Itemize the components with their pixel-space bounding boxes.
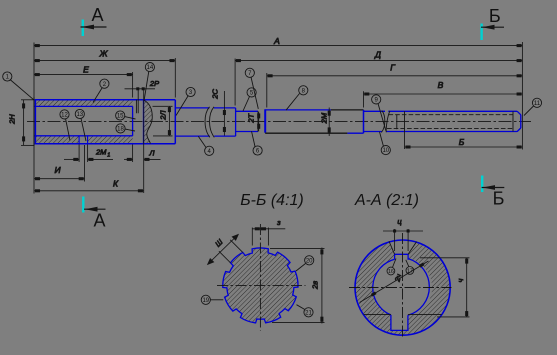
tube S1 hatch bottom wall bbox=[36, 136, 133, 143]
ext line x=143.7 long down bbox=[143, 89, 145, 193]
balloon numbers main view bbox=[6, 65, 541, 155]
gear hatch bbox=[223, 248, 298, 323]
balloon 19 bbox=[201, 256, 314, 317]
dimension ц bbox=[383, 217, 423, 251]
cut marker Б bottom bbox=[481, 176, 483, 193]
svg-text:10: 10 bbox=[382, 148, 389, 154]
svg-text:2Т: 2Т bbox=[246, 112, 255, 123]
svg-text:ц: ц bbox=[397, 217, 402, 226]
dimension А bbox=[34, 45, 522, 47]
keyway V diagonals bbox=[389, 241, 417, 254]
thread minor dashed bbox=[387, 115, 513, 129]
dimension К bbox=[33, 182, 35, 194]
balloon 20 bbox=[296, 264, 306, 272]
bottom keyway slot bbox=[391, 315, 408, 331]
svg-text:18: 18 bbox=[117, 127, 124, 133]
svg-text:А: А bbox=[273, 36, 280, 46]
svg-text:1: 1 bbox=[107, 153, 110, 159]
balloon 2 bbox=[93, 88, 102, 103]
svg-text:Ж: Ж bbox=[99, 49, 109, 59]
dimension 2Т bbox=[258, 112, 260, 132]
dimension Е bbox=[34, 74, 133, 76]
balloon 12 bbox=[66, 119, 71, 141]
ring outer circle bbox=[355, 240, 450, 335]
tube S1 bore lines bbox=[34, 106, 133, 135]
balloon 11 bbox=[524, 106, 534, 116]
svg-text:2С: 2С bbox=[210, 89, 219, 100]
cut marker Б top bbox=[480, 24, 482, 41]
cut marker A bottom bbox=[82, 197, 84, 213]
chamfer line right bbox=[512, 111, 514, 131]
svg-text:19: 19 bbox=[202, 298, 209, 304]
svg-text:17: 17 bbox=[407, 268, 413, 274]
svg-text:2М: 2М bbox=[320, 112, 329, 124]
dimension ч bbox=[420, 258, 470, 317]
balloon 18 bbox=[125, 129, 135, 131]
svg-text:2в: 2в bbox=[311, 281, 320, 290]
ext line x=402.5 down bbox=[404, 132, 406, 150]
dimension Г bbox=[267, 75, 523, 77]
balloon 4 bbox=[198, 136, 206, 147]
main centerline bbox=[27, 121, 531, 123]
thread start line bbox=[404, 111, 406, 131]
section S3 outline bbox=[175, 108, 235, 136]
tube S1 outer contour bbox=[35, 100, 176, 144]
svg-text:13: 13 bbox=[76, 112, 83, 118]
svg-text:ч: ч bbox=[456, 279, 465, 283]
groove right wall bbox=[143, 100, 145, 144]
svg-text:Б: Б bbox=[459, 137, 465, 147]
dimension 2М s4 bbox=[328, 108, 330, 137]
cut marker A top bbox=[82, 20, 84, 37]
ext line x=266.8 up bbox=[266, 73, 268, 108]
dimension Д bbox=[235, 60, 522, 62]
dimension 2Р bbox=[125, 88, 156, 90]
wavy break line S1 bbox=[144, 100, 153, 144]
balloon 6 bbox=[252, 131, 256, 146]
dimension 2Н bbox=[21, 99, 34, 101]
svg-text:2Р: 2Р bbox=[149, 79, 159, 88]
dimension Ж bbox=[34, 60, 175, 62]
keyway slot bbox=[395, 254, 409, 259]
svg-text:Л: Л bbox=[148, 149, 155, 158]
svg-text:И: И bbox=[54, 165, 61, 175]
ext line x=132.6 up bbox=[132, 72, 134, 98]
balloon 21 bbox=[297, 305, 305, 310]
wavy break S3 bbox=[205, 107, 214, 138]
dimension Ш bbox=[208, 235, 243, 265]
dimension Б bbox=[405, 146, 523, 148]
svg-text:В: В bbox=[438, 80, 444, 90]
dimension В bbox=[364, 93, 523, 95]
svg-text:12: 12 bbox=[61, 113, 68, 119]
section S5 outline bbox=[364, 111, 521, 131]
svg-text:Д: Д bbox=[374, 50, 381, 60]
ext line x=235.1 up bbox=[234, 59, 236, 106]
bore end face bbox=[132, 106, 134, 135]
А-А crosshair bbox=[349, 233, 452, 338]
bottom wall hole edges bbox=[79, 136, 88, 143]
ext line x=521.6 right bbox=[521, 42, 523, 150]
balloon 5 bbox=[243, 97, 250, 112]
section S4 left face bbox=[264, 109, 266, 132]
balloon 7 bbox=[251, 77, 258, 109]
svg-text:А: А bbox=[91, 5, 103, 25]
broken-out section hatch patch bbox=[144, 100, 153, 143]
balloon numbers section А-А bbox=[388, 268, 413, 275]
svg-text:А-А (2:1): А-А (2:1) bbox=[354, 192, 419, 209]
ext line x=363.5 up bbox=[363, 91, 365, 107]
balloon 14 bbox=[144, 71, 149, 101]
balloon 17 bbox=[406, 260, 409, 267]
section S4 top bbox=[265, 109, 331, 111]
neck right face bbox=[257, 111, 259, 131]
balloon 15 bbox=[125, 117, 136, 120]
gear outline bbox=[223, 248, 298, 323]
balloon 9 bbox=[378, 104, 386, 132]
svg-text:Б-Б (4:1): Б-Б (4:1) bbox=[240, 192, 304, 209]
svg-text:Е: Е bbox=[83, 65, 89, 75]
svg-text:15: 15 bbox=[117, 114, 124, 120]
svg-text:Б: Б bbox=[493, 189, 505, 209]
svg-text:Б: Б bbox=[489, 6, 501, 26]
svg-text:16: 16 bbox=[388, 269, 394, 275]
dimension 2в bbox=[270, 248, 325, 324]
svg-text:14: 14 bbox=[147, 65, 154, 71]
ext line left end bbox=[33, 43, 35, 147]
ring bore circle bbox=[373, 259, 430, 316]
svg-text:2Н: 2Н bbox=[8, 114, 17, 125]
svg-text:2М: 2М bbox=[95, 148, 107, 157]
chord flats bbox=[364, 314, 442, 316]
dimension И bbox=[33, 146, 35, 182]
ring hatch bbox=[340, 225, 480, 350]
dimension 2Л bbox=[153, 105, 173, 107]
dimension 2С bbox=[223, 91, 225, 136]
balloon 10 bbox=[380, 132, 384, 147]
groove verticals bbox=[136, 89, 138, 113]
svg-text:21: 21 bbox=[305, 310, 312, 316]
balloon 16 bbox=[387, 259, 414, 275]
balloon 8 bbox=[286, 94, 300, 111]
balloon numbers section Б-Б bbox=[202, 258, 313, 316]
svg-text:11: 11 bbox=[534, 101, 541, 107]
svg-text:20: 20 bbox=[306, 258, 313, 264]
neck outline bbox=[236, 111, 258, 131]
tube S1 hatch top wall bbox=[36, 100, 133, 106]
wavy break S5 bbox=[381, 111, 390, 133]
balloon 1 bbox=[10, 80, 34, 100]
2Ч diagonal bbox=[360, 261, 429, 303]
dimension з bbox=[252, 218, 285, 246]
step face x=175.3 bbox=[174, 100, 176, 144]
section S4 right face bbox=[363, 110, 365, 133]
svg-text:з: з bbox=[276, 218, 281, 227]
balloon 3 bbox=[176, 96, 188, 116]
svg-text:А: А bbox=[93, 211, 105, 231]
dimension 2М1 bbox=[78, 145, 80, 163]
ext line x=175.3 up bbox=[174, 58, 176, 98]
section S4 bottom bbox=[265, 132, 347, 134]
gear crosshair bbox=[217, 224, 306, 331]
balloon 13 bbox=[81, 118, 86, 141]
dimension Л bbox=[132, 145, 134, 163]
svg-text:2Л: 2Л bbox=[158, 110, 167, 121]
